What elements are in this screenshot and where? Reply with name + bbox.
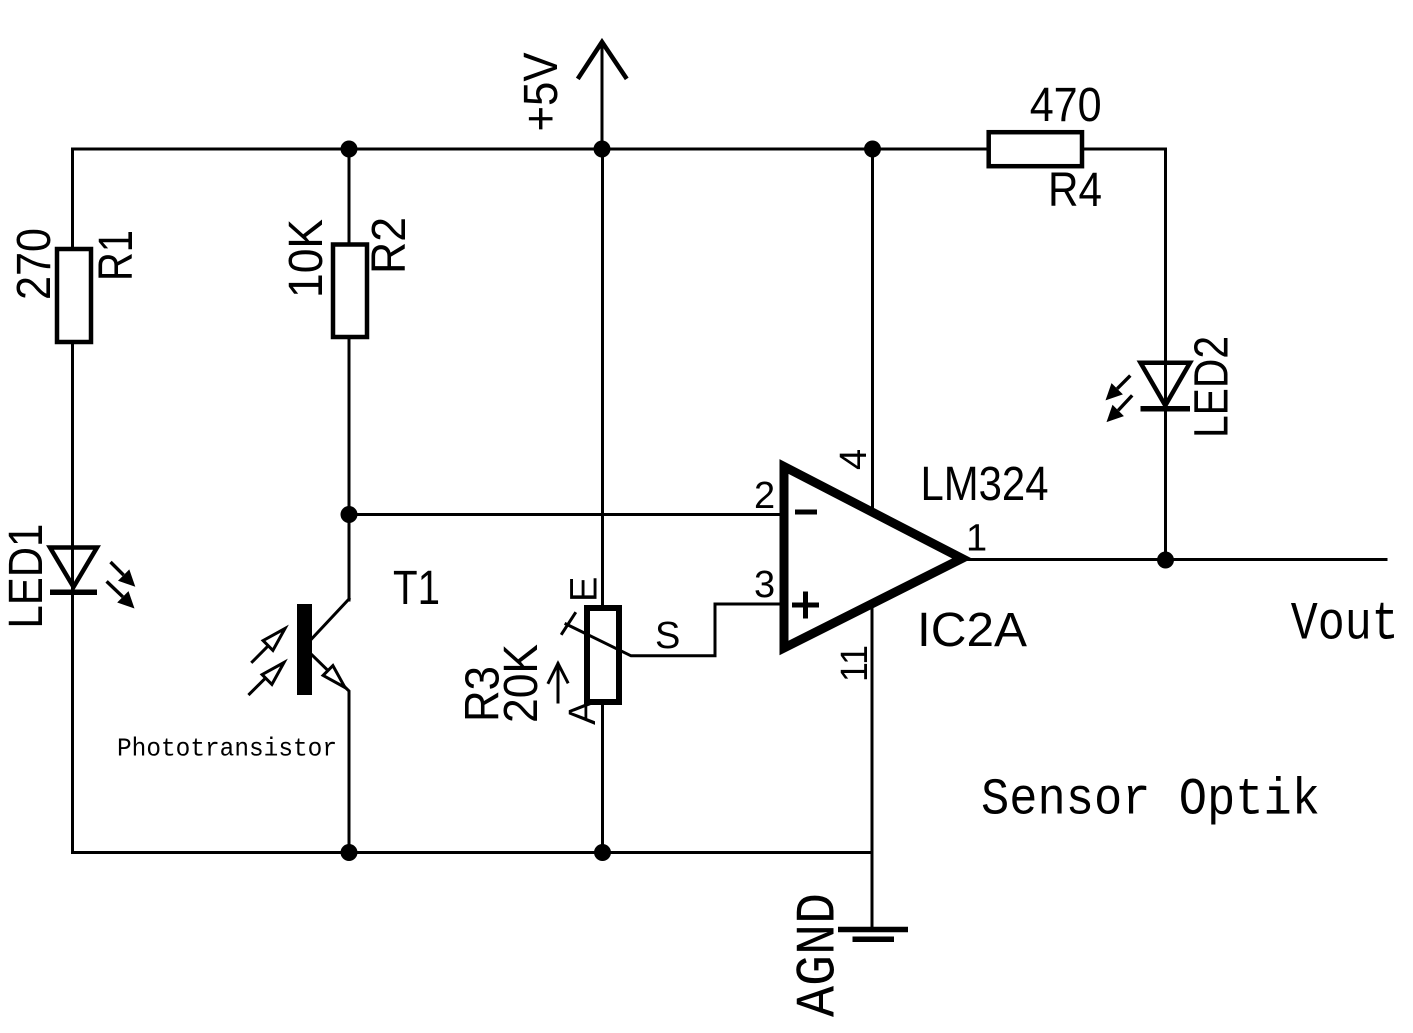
svg-text:AGND: AGND	[786, 893, 850, 1017]
svg-text:10K: 10K	[280, 219, 333, 298]
svg-text:270: 270	[8, 228, 61, 300]
svg-text:LED1: LED1	[0, 524, 53, 629]
svg-text:R2: R2	[363, 217, 416, 274]
svg-text:A: A	[562, 699, 604, 725]
svg-text:E: E	[564, 577, 606, 602]
svg-text:Phototransistor: Phototransistor	[117, 734, 337, 764]
svg-text:+5V: +5V	[515, 53, 568, 132]
svg-text:4: 4	[833, 449, 875, 470]
svg-text:3: 3	[754, 564, 775, 606]
svg-text:LED2: LED2	[1185, 336, 1238, 438]
svg-text:T1: T1	[393, 562, 440, 615]
svg-text:LM324: LM324	[921, 458, 1049, 511]
svg-text:Vout: Vout	[1291, 594, 1399, 655]
svg-text:IC2A: IC2A	[917, 604, 1027, 657]
svg-text:11: 11	[834, 645, 876, 682]
svg-text:20K: 20K	[495, 644, 548, 723]
svg-text:470: 470	[1030, 79, 1102, 132]
svg-text:Sensor Optik: Sensor Optik	[981, 771, 1320, 830]
svg-text:2: 2	[754, 475, 775, 517]
svg-text:S: S	[655, 615, 680, 657]
svg-text:R1: R1	[90, 230, 143, 281]
svg-text:1: 1	[966, 518, 987, 560]
svg-text:R4: R4	[1048, 164, 1102, 217]
